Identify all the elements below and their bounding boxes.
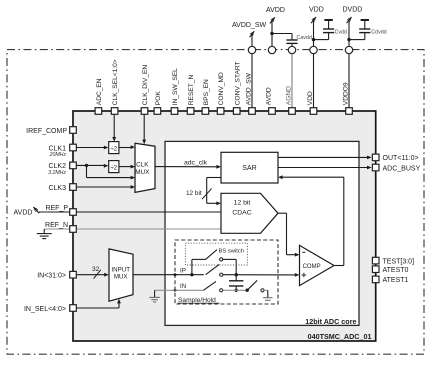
svg-text:20MHz: 20MHz [49,152,67,158]
svg-text:OUT<11:0>: OUT<11:0> [383,155,419,162]
svg-text:ATEST1: ATEST1 [383,277,409,284]
svg-text:VDDO9: VDDO9 [342,82,349,105]
svg-text:POK: POK [155,91,162,106]
svg-text:RESET_N: RESET_N [188,75,195,106]
svg-text:AVDD: AVDD [266,7,285,14]
svg-text:IREF_COMP: IREF_COMP [26,128,67,135]
svg-text:12 bit: 12 bit [234,200,251,207]
svg-text:12 bit: 12 bit [186,190,202,197]
svg-text:TEST[3:0]: TEST[3:0] [383,258,415,265]
svg-text:AGND: AGND [285,86,292,105]
svg-text:MUX: MUX [135,169,150,176]
svg-text:12bit ADC core: 12bit ADC core [305,317,356,326]
svg-text:÷2: ÷2 [110,146,117,152]
svg-text:Cvdd: Cvdd [335,30,347,36]
svg-text:CLK: CLK [136,162,149,169]
svg-text:IN_SEL<4:0>: IN_SEL<4:0> [24,306,66,313]
svg-text:AVDD: AVDD [265,87,272,105]
svg-text:AVDD: AVDD [14,209,33,216]
svg-text:REF_P: REF_P [45,205,68,212]
svg-text:IN_SW_SEL: IN_SW_SEL [172,68,179,105]
svg-text:BS switch: BS switch [219,248,244,254]
svg-text:adc_clk: adc_clk [184,160,208,167]
svg-text:AVDD_SW: AVDD_SW [245,72,252,105]
svg-text:SAR: SAR [242,165,256,172]
svg-text:ADC_BUSY: ADC_BUSY [383,165,421,172]
svg-text:DVDD: DVDD [343,6,363,13]
svg-text:÷2: ÷2 [110,165,117,171]
svg-text:MUX: MUX [114,274,128,281]
svg-text:32: 32 [92,266,100,273]
svg-text:REF_N: REF_N [45,222,68,229]
svg-text:VDD: VDD [309,6,324,13]
svg-text:CONV_MD: CONV_MD [218,72,225,105]
svg-text:Cavdd: Cavdd [297,35,312,41]
svg-text:CONV_START: CONV_START [234,61,241,105]
svg-text:CLK_SEL<1:0>: CLK_SEL<1:0> [112,59,119,105]
svg-text:CLK_DIV_EN: CLK_DIV_EN [142,65,149,106]
svg-text:VDD: VDD [307,91,314,105]
svg-text:COMP: COMP [303,264,321,270]
svg-text:IN<31:0>: IN<31:0> [37,273,66,280]
svg-text:IP: IP [180,268,186,275]
svg-text:3.2MHz: 3.2MHz [48,170,66,176]
svg-text:INPUT: INPUT [111,267,130,274]
svg-text:CLK3: CLK3 [48,185,66,192]
svg-text:Cdvdd: Cdvdd [371,30,386,36]
svg-text:AVDD_SW: AVDD_SW [232,22,266,29]
svg-text:ATEST0: ATEST0 [383,267,409,274]
svg-text:040TSMC_ADC_01: 040TSMC_ADC_01 [308,332,372,341]
svg-text:Sample/Hold: Sample/Hold [178,297,216,304]
svg-text:CDAC: CDAC [232,209,251,216]
svg-text:IN: IN [180,283,186,290]
svg-text:BPS_EN: BPS_EN [203,79,210,105]
svg-text:ADC_EN: ADC_EN [96,78,103,105]
